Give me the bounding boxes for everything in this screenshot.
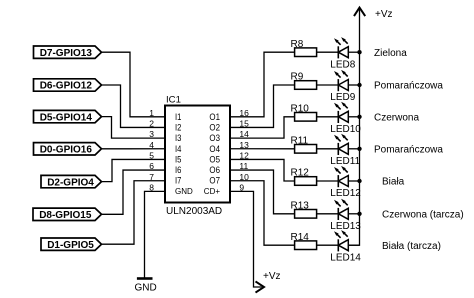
wire D6-GPIO12 to IC1 pin 2 [102,85,166,127]
LED LED13 [330,199,361,232]
svg-text:O7: O7 [209,176,220,187]
svg-text:LED13: LED13 [330,221,361,232]
svg-text:I1: I1 [175,112,181,123]
wire D8-GPIO15 to IC1 pin 6 [102,170,166,214]
svg-text:I5: I5 [175,154,181,165]
IC pin label I4 [175,144,182,155]
+Vz label (top) [375,9,393,20]
IC value ULN2003AD [166,206,222,217]
IC pin label O4 [209,144,220,155]
svg-text:+Vz: +Vz [263,271,281,282]
svg-text:4: 4 [149,140,154,150]
svg-text:D7-GPIO13: D7-GPIO13 [40,48,93,59]
IC reference IC1 [166,95,181,106]
label Czerwona (tarcza) [382,209,464,220]
pin number 15 [239,119,249,129]
wire D5-GPIO14 to IC1 pin 3 [102,117,166,139]
junction dot row 4 [357,147,361,151]
wire IC1 pin 15 to R9 [230,85,295,127]
svg-text:Biała (tarcza): Biała (tarcza) [382,241,441,252]
pin number 16 [239,108,249,118]
wire IC1 pin 9 (CD+) to +Vz [230,191,262,287]
LED LED12 [330,166,361,199]
resistor R12 [291,168,317,186]
svg-text:D5-GPIO14: D5-GPIO14 [40,112,93,123]
label Zielona [374,48,407,59]
LED LED10 [330,102,361,135]
svg-text:LED14: LED14 [330,252,361,263]
IC pin label O2 [209,122,220,133]
svg-text:R10: R10 [291,103,310,114]
junction dot row 3 [357,115,361,119]
resistor R11 [291,135,317,153]
IC pin label CD+ [204,186,220,196]
svg-text:GND: GND [134,283,156,294]
IC pin label O6 [209,165,220,176]
label Czerwona [374,112,419,123]
resistor R13 [291,200,317,218]
svg-text:LED10: LED10 [330,124,361,135]
net flag D8-GPIO15 [33,208,102,221]
svg-text:D6-GPIO12: D6-GPIO12 [40,81,93,92]
wire R13 to LED13 [317,213,339,215]
svg-text:I7: I7 [175,176,181,187]
svg-text:Biała: Biała [382,177,405,188]
svg-text:D2-GPIO4: D2-GPIO4 [47,177,94,188]
IC pin label I6 [175,165,181,176]
svg-text:LED11: LED11 [330,156,360,167]
svg-text:R13: R13 [291,200,310,211]
wire IC1 pin 10 to R14 [230,181,295,245]
LED LED8 [330,37,359,70]
wire R12 to LED12 [317,180,339,182]
pin number 12 [239,151,249,161]
+Vz arrow (top) [354,8,365,17]
IC pin label I2 [175,122,181,133]
svg-text:7: 7 [149,172,154,182]
net flag D5-GPIO14 [34,110,102,123]
label Pomarańczowa [374,144,443,155]
wire R11 to LED11 [317,148,339,150]
svg-text:R8: R8 [291,39,304,50]
wire IC1 pin 13 to R11 [230,148,295,150]
pin number 4 [149,140,154,150]
svg-text:Zielona: Zielona [374,48,407,59]
pin number 9 [239,182,244,192]
wire R14 to LED14 [317,244,339,246]
svg-text:+Vz: +Vz [375,9,393,20]
svg-text:LED8: LED8 [330,59,355,70]
pin number 10 [239,172,249,182]
op IC U1: ULN2003AD box [165,106,230,203]
svg-text:R14: R14 [291,232,310,243]
IC pin label I7 [175,176,181,187]
LED LED14 [330,230,361,263]
svg-text:Pomarańczowa: Pomarańczowa [374,81,443,92]
IC pin label I5 [175,154,181,165]
label Biała [382,177,405,188]
LED LED9 [330,70,359,103]
label Biała (tarcza) [382,241,441,252]
IC pin label O7 [209,176,220,187]
svg-text:3: 3 [149,129,154,139]
svg-text:I3: I3 [175,133,181,144]
pin number 6 [149,161,154,171]
svg-text:D0-GPIO16: D0-GPIO16 [40,145,93,156]
wire D0-GPIO16 to IC1 pin 4 [102,148,166,150]
svg-text:LED12: LED12 [330,188,361,199]
svg-text:O5: O5 [209,154,220,165]
wire IC1 pin 12 to R12 [230,159,295,181]
svg-text:I2: I2 [175,122,181,133]
wire D2-GPIO4 to IC1 pin 5 [102,159,166,181]
svg-text:R9: R9 [291,72,304,83]
IC pin label O3 [209,133,220,144]
svg-text:CD+: CD+ [204,186,220,196]
svg-text:O2: O2 [209,122,220,133]
svg-text:IC1: IC1 [166,95,181,106]
+Vz power rail [348,9,359,245]
pin number 11 [239,161,248,171]
svg-text:Czerwona (tarcza): Czerwona (tarcza) [382,209,464,220]
wire R10 to LED10 [317,116,339,118]
IC pin label I3 [175,133,181,144]
resistor R8 [291,39,317,57]
net flag D6-GPIO12 [34,79,102,92]
svg-text:R12: R12 [291,168,310,179]
pin number 14 [239,129,249,139]
svg-text:D8-GPIO15: D8-GPIO15 [39,210,92,221]
wire R8 to LED8 [317,51,339,53]
wire D7-GPIO13 to IC1 pin 1 [102,52,166,117]
svg-text:2: 2 [149,119,154,129]
+Vz arrow (bottom) [256,281,265,292]
wire IC1 pin 14 to R10 [230,117,295,138]
wire IC1 pin 16 to R8 [230,52,295,117]
wire IC1 pin 11 to R13 [230,170,295,214]
label Pomarańczowa [374,81,443,92]
junction dot row 2 [357,83,361,87]
svg-text:O6: O6 [209,165,220,176]
ground symbol [134,279,156,294]
svg-text:R11: R11 [291,135,309,146]
svg-text:1: 1 [149,108,154,118]
net flag D2-GPIO4 [41,175,102,188]
svg-text:O1: O1 [209,112,220,123]
resistor R9 [291,72,317,90]
junction dot row 5 [357,179,361,183]
pin number 5 [149,151,154,161]
svg-text:LED9: LED9 [330,92,355,103]
svg-text:Czerwona: Czerwona [374,112,419,123]
svg-text:D1-GPIO5: D1-GPIO5 [47,240,94,251]
resistor R14 [291,232,317,250]
LED LED11 [330,134,360,167]
svg-text:I6: I6 [175,165,181,176]
IC pin label GND [175,186,193,196]
junction dot row 1 [357,50,361,54]
svg-text:I4: I4 [175,144,182,155]
junction dot row 6 [357,212,361,216]
pin number 3 [149,129,154,139]
wire R9 to LED9 [317,84,339,86]
wire D1-GPIO5 to IC1 pin 7 [102,181,166,244]
pin number 13 [239,140,249,150]
svg-text:5: 5 [149,151,154,161]
pin number 8 [149,182,154,192]
IC pin label O1 [209,112,220,123]
wire IC1 pin 8 to ground [145,191,166,278]
svg-text:O3: O3 [209,133,220,144]
svg-text:Pomarańczowa: Pomarańczowa [374,144,443,155]
svg-text:6: 6 [149,161,154,171]
net flag D1-GPIO5 [41,238,102,251]
IC pin label I1 [175,112,181,123]
net flag D0-GPIO16 [34,143,102,156]
+Vz label (bottom) [263,271,281,282]
net flag D7-GPIO13 [34,46,102,59]
resistor R10 [291,103,317,121]
svg-text:O4: O4 [209,144,220,155]
IC pin label O5 [209,154,220,165]
pin number 7 [149,172,154,182]
svg-text:GND: GND [175,186,193,196]
pin number 1 [149,108,154,118]
pin number 2 [149,119,154,129]
svg-text:ULN2003AD: ULN2003AD [166,206,222,217]
